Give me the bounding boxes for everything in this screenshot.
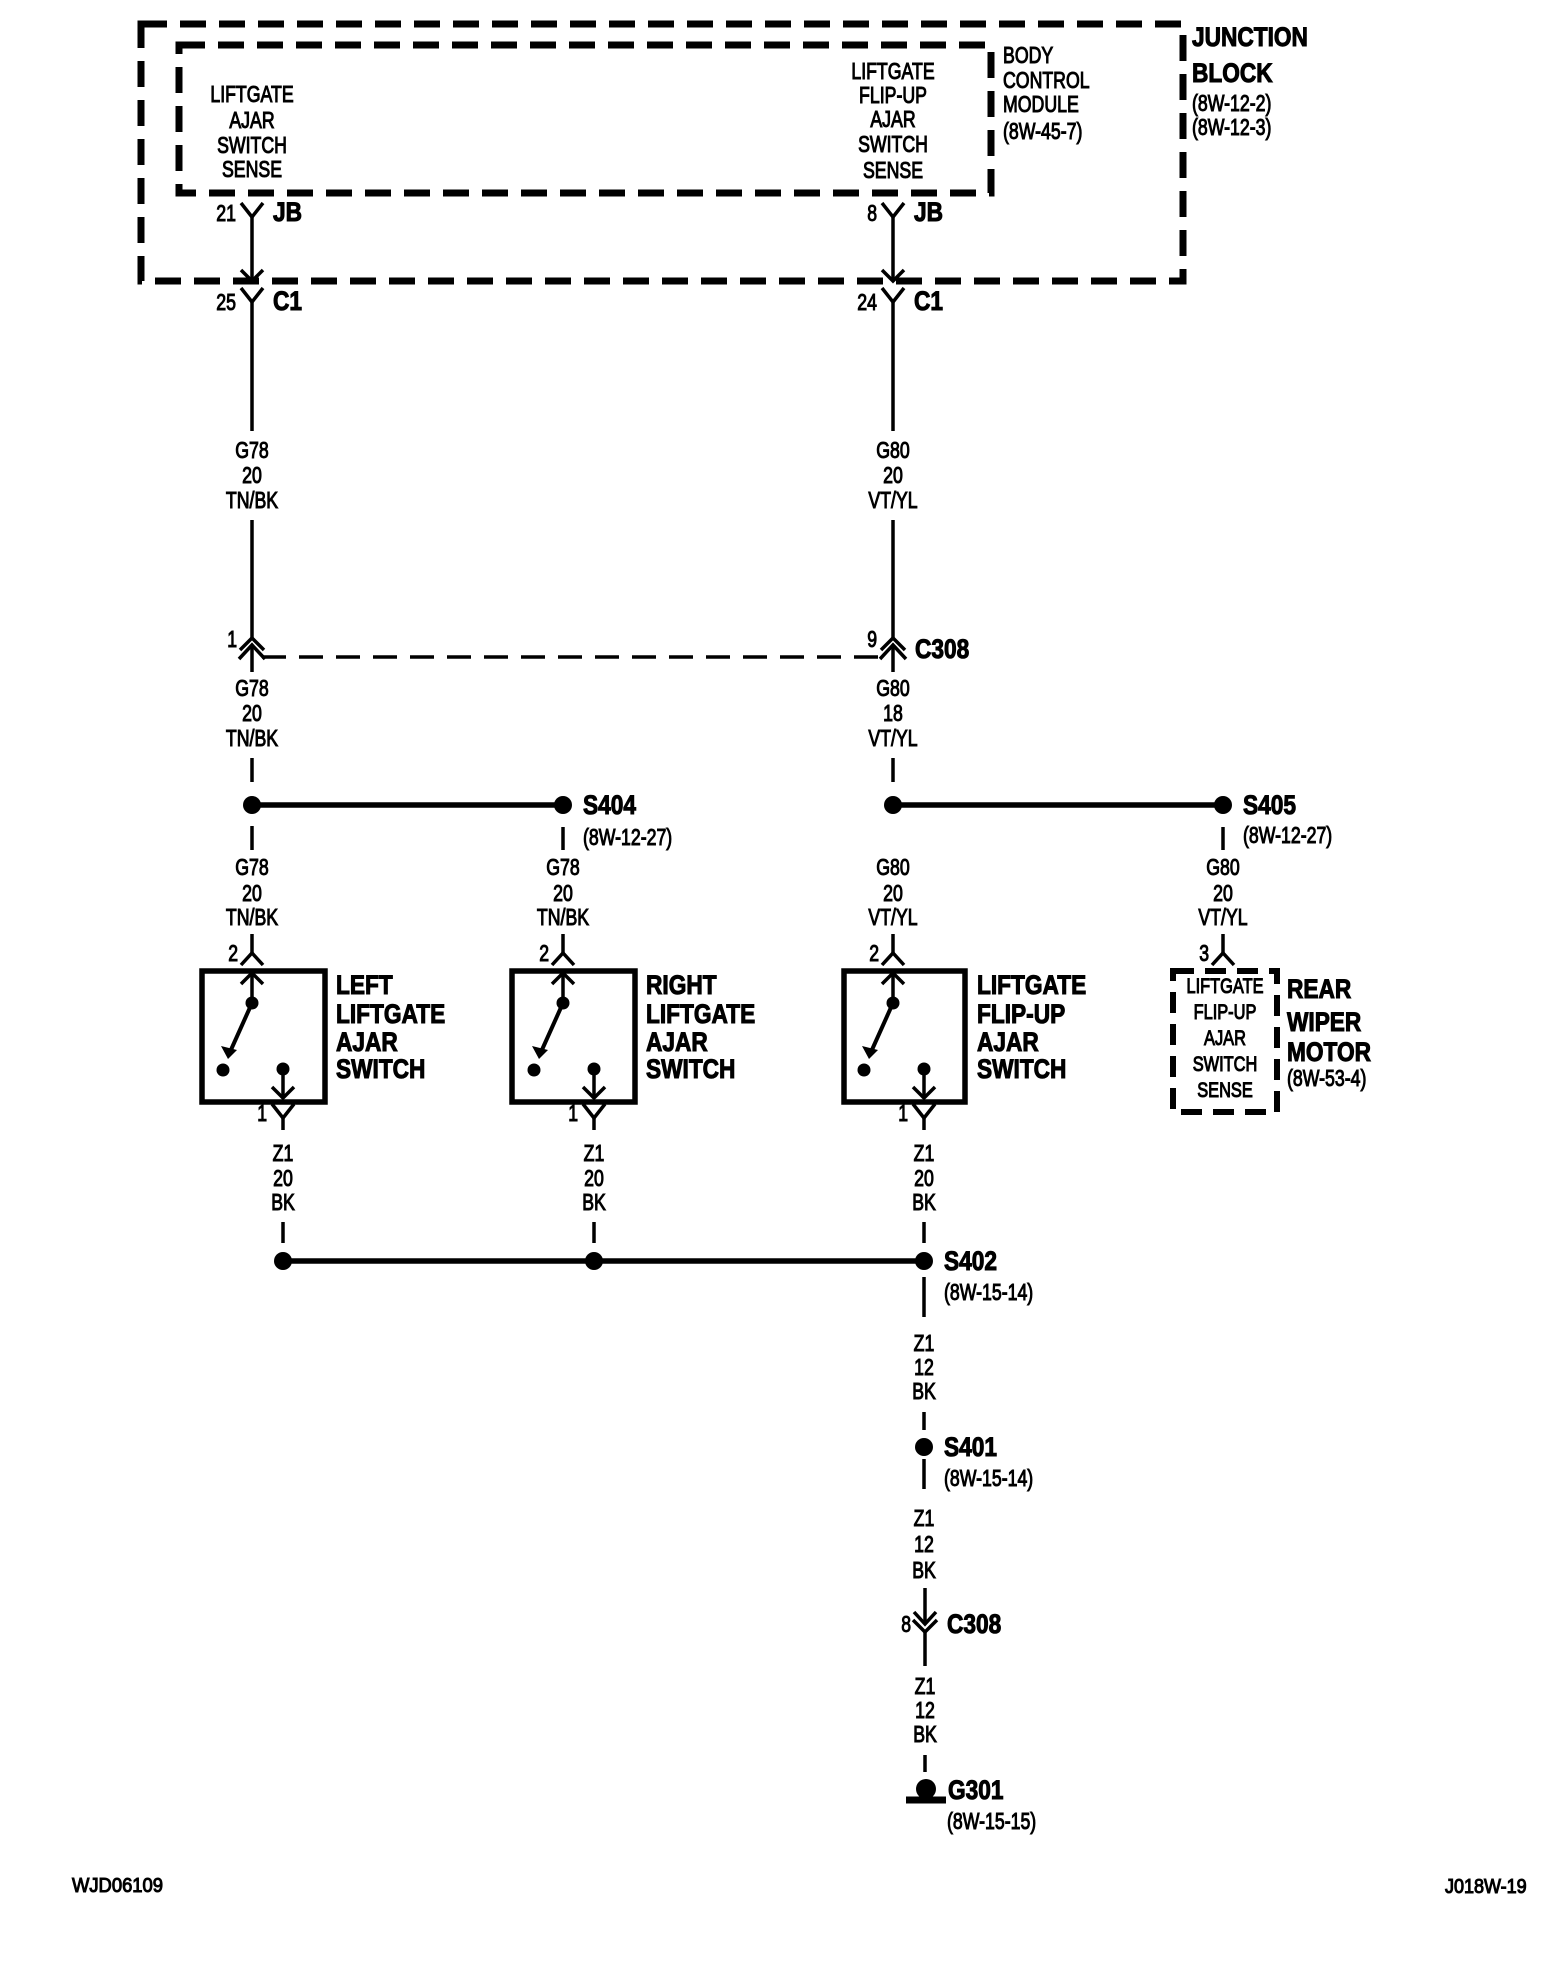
svg-text:18: 18 [883,700,903,726]
svg-text:Z1: Z1 [273,1140,294,1166]
svg-text:SWITCH: SWITCH [336,1054,425,1084]
svg-text:LIFTGATE: LIFTGATE [851,58,934,84]
svg-text:21: 21 [216,200,236,226]
svg-text:JB: JB [914,197,943,227]
wire stub above splice S405 [891,758,895,782]
svg-text:LEFT: LEFT [336,970,393,1000]
svg-text:BK: BK [913,1721,937,1747]
svg-text:BODY: BODY [1003,42,1053,68]
wire below S402 [922,1277,926,1317]
splice S401 dot [915,1438,933,1456]
body control module inner dashed box [179,45,991,193]
svg-text:8: 8 [901,1611,911,1637]
svg-text:Z1: Z1 [914,1505,935,1531]
svg-text:1: 1 [898,1100,908,1126]
rear wiper motor dashed box [1173,971,1277,1112]
svg-text:(8W-15-14): (8W-15-14) [944,1465,1033,1491]
svg-text:(8W-12-27): (8W-12-27) [1243,822,1332,848]
svg-text:12: 12 [914,1354,934,1380]
splice S402 wire [283,1258,924,1264]
svg-text:AJAR: AJAR [646,1027,708,1057]
svg-text:WJD06109: WJD06109 [72,1875,163,1897]
connector pin 2 (male fork) [891,934,895,953]
svg-text:20: 20 [273,1165,293,1191]
svg-text:G78: G78 [235,675,269,701]
svg-text:2: 2 [228,940,238,966]
connector pin 2 (male fork) [561,934,565,953]
svg-text:(8W-12-2): (8W-12-2) [1192,90,1271,116]
svg-text:LIFTGATE: LIFTGATE [977,970,1086,1000]
connector C308 dashed boundary line [262,655,884,658]
switch output dot [918,1063,931,1076]
svg-text:20: 20 [553,880,573,906]
svg-text:S401: S401 [944,1432,997,1462]
svg-text:VT/YL: VT/YL [868,904,917,930]
switch box outline [512,971,635,1102]
svg-text:SENSE: SENSE [1197,1079,1253,1102]
svg-text:G80: G80 [876,675,910,701]
svg-text:G78: G78 [235,854,269,880]
switch pole dot [887,997,900,1010]
splice S405 stub down [1221,827,1225,850]
svg-text:TN/BK: TN/BK [226,904,279,930]
splice S402 dot col2 [585,1252,603,1270]
svg-text:(8W-12-3): (8W-12-3) [1192,114,1271,140]
switch contact arrow in [891,973,895,1000]
wire stub col1 to S402 [281,1222,285,1243]
splice S404 stub down [561,827,565,850]
splice S404 branch wire [252,802,563,808]
switch output wire [922,1069,926,1098]
svg-text:CONTROL: CONTROL [1003,67,1090,93]
svg-text:20: 20 [883,462,903,488]
svg-text:20: 20 [883,880,903,906]
svg-text:Z1: Z1 [915,1673,936,1699]
wire C1 pin25 down [250,302,254,431]
svg-text:FLIP-UP: FLIP-UP [977,999,1065,1029]
svg-text:(8W-12-27): (8W-12-27) [583,824,672,850]
ground G301 [916,1779,936,1799]
svg-text:AJAR: AJAR [977,1027,1039,1057]
switch output wire [281,1069,285,1098]
svg-text:BK: BK [582,1189,606,1215]
svg-text:2: 2 [539,940,549,966]
wire C1 pin24 down [891,302,895,431]
in-line connector C308 pin 1 [240,638,264,650]
connector pin 1 (female) [913,1104,935,1118]
svg-text:G80: G80 [876,854,910,880]
svg-text:AJAR: AJAR [336,1027,398,1057]
connector pin 1 (female) [583,1104,605,1118]
wire G78 to C308 [250,520,254,638]
svg-text:VT/YL: VT/YL [868,487,917,513]
svg-text:SWITCH: SWITCH [1193,1053,1258,1076]
svg-text:LIFTGATE: LIFTGATE [1187,975,1264,998]
svg-text:REAR: REAR [1287,974,1351,1004]
switch output dot [588,1063,601,1076]
switch throw dot (left) [528,1064,541,1077]
svg-text:3: 3 [1199,940,1209,966]
splice S402 dot col1 [274,1252,292,1270]
svg-text:Z1: Z1 [914,1140,935,1166]
switch box outline [844,971,965,1102]
wire stub above splice S404 [250,758,254,782]
svg-text:SWITCH: SWITCH [646,1054,735,1084]
wire stub col2 to S402 [592,1222,596,1243]
svg-text:20: 20 [584,1165,604,1191]
svg-text:TN/BK: TN/BK [537,904,590,930]
svg-text:AJAR: AJAR [870,106,915,132]
switch contact arrow in [561,973,565,1000]
switch blade [541,1003,563,1052]
svg-text:G78: G78 [235,437,269,463]
wire JB pin8 to C1 [891,217,895,281]
wire G80 to C308 [891,520,895,638]
svg-text:S402: S402 [944,1246,997,1276]
in-line connector C308 pin 9 [881,638,905,650]
svg-text:2: 2 [869,940,879,966]
splice S404 dot [554,796,572,814]
svg-text:MOTOR: MOTOR [1287,1037,1371,1067]
svg-text:LIFTGATE: LIFTGATE [336,999,445,1029]
svg-text:1: 1 [227,626,237,652]
switch throw dot (left) [217,1064,230,1077]
svg-text:G78: G78 [546,854,580,880]
svg-text:WIPER: WIPER [1287,1007,1361,1037]
svg-text:1: 1 [568,1100,578,1126]
switch throw dot (left) [858,1064,871,1077]
svg-text:9: 9 [867,626,877,652]
splice S405 junction dot (left) [884,796,902,814]
svg-text:RIGHT: RIGHT [646,970,717,1000]
switch output dot [277,1063,290,1076]
svg-text:25: 25 [216,289,236,315]
svg-text:BK: BK [271,1189,295,1215]
svg-text:20: 20 [1213,880,1233,906]
svg-text:JB: JB [273,197,302,227]
svg-text:20: 20 [914,1165,934,1191]
connector pin 1 (female) [272,1104,294,1118]
junction block outer dashed box [141,24,1183,281]
svg-text:20: 20 [242,880,262,906]
svg-text:(8W-45-7): (8W-45-7) [1003,118,1082,144]
svg-text:12: 12 [914,1531,934,1557]
svg-text:MODULE: MODULE [1003,91,1079,117]
svg-text:20: 20 [242,462,262,488]
connector pin 2 (male fork) [250,934,254,953]
switch blade [871,1003,893,1052]
switch blade [230,1003,252,1052]
svg-text:SWITCH: SWITCH [217,132,287,158]
switch pole dot [557,997,570,1010]
svg-text:(8W-53-4): (8W-53-4) [1287,1065,1366,1091]
svg-text:1: 1 [257,1100,267,1126]
svg-text:S404: S404 [583,790,636,820]
svg-text:C1: C1 [914,286,943,316]
connector pin 3 (male fork) [1221,934,1225,953]
svg-text:SWITCH: SWITCH [977,1054,1066,1084]
svg-text:(8W-15-14): (8W-15-14) [944,1279,1033,1305]
svg-text:SENSE: SENSE [863,157,923,183]
svg-text:G80: G80 [1206,854,1240,880]
wire JB pin21 to C1 [250,217,254,281]
wire stub below S404 left dot [250,826,254,850]
svg-text:VT/YL: VT/YL [868,725,917,751]
svg-text:Z1: Z1 [584,1140,605,1166]
svg-text:J018W-19: J018W-19 [1445,1876,1527,1898]
svg-text:S405: S405 [1243,790,1296,820]
svg-text:BLOCK: BLOCK [1192,58,1273,88]
svg-text:24: 24 [857,289,877,315]
splice S405 branch wire [893,802,1223,808]
wire stub col3 to S402 [922,1222,926,1243]
svg-text:G80: G80 [876,437,910,463]
wire stub above S401 [922,1412,926,1430]
connector C1 pin 24 (female) [882,288,904,302]
splice S402 dot [915,1252,933,1270]
svg-text:SENSE: SENSE [222,156,282,182]
svg-text:G301: G301 [948,1775,1004,1805]
svg-text:AJAR: AJAR [229,107,274,133]
wire to C308 pin 8 [923,1588,927,1624]
switch contact arrow in [250,973,254,1000]
svg-text:BK: BK [912,1378,936,1404]
switch pole dot [246,997,259,1010]
svg-text:8: 8 [867,200,877,226]
switch box outline [202,971,325,1102]
svg-text:JUNCTION: JUNCTION [1192,22,1308,52]
svg-text:FLIP-UP: FLIP-UP [1194,1001,1257,1024]
switch output wire [592,1069,596,1098]
svg-text:(8W-15-15): (8W-15-15) [947,1808,1036,1834]
splice S405 dot [1214,796,1232,814]
svg-text:Z1: Z1 [914,1330,935,1356]
in-line connector C308 pin 8 [914,1612,936,1624]
svg-text:TN/BK: TN/BK [226,487,279,513]
svg-text:20: 20 [242,700,262,726]
svg-text:C308: C308 [915,634,969,664]
wire below S401 [922,1459,926,1489]
svg-text:FLIP-UP: FLIP-UP [859,82,927,108]
svg-text:LIFTGATE: LIFTGATE [210,81,293,107]
connector JB pin 8 (female) [882,203,904,217]
connector C1 pin 25 (female) [241,288,263,302]
svg-text:TN/BK: TN/BK [226,725,279,751]
svg-text:AJAR: AJAR [1204,1027,1246,1050]
svg-text:VT/YL: VT/YL [1198,904,1247,930]
svg-text:BK: BK [912,1557,936,1583]
svg-text:BK: BK [912,1189,936,1215]
svg-text:LIFTGATE: LIFTGATE [646,999,755,1029]
svg-text:C1: C1 [273,286,302,316]
wire stub above ground [923,1755,927,1772]
splice S404 junction dot (left) [243,796,261,814]
svg-text:12: 12 [915,1697,935,1723]
svg-text:C308: C308 [947,1609,1001,1639]
svg-text:SWITCH: SWITCH [858,131,928,157]
connector JB pin 21 (female) [241,203,263,217]
